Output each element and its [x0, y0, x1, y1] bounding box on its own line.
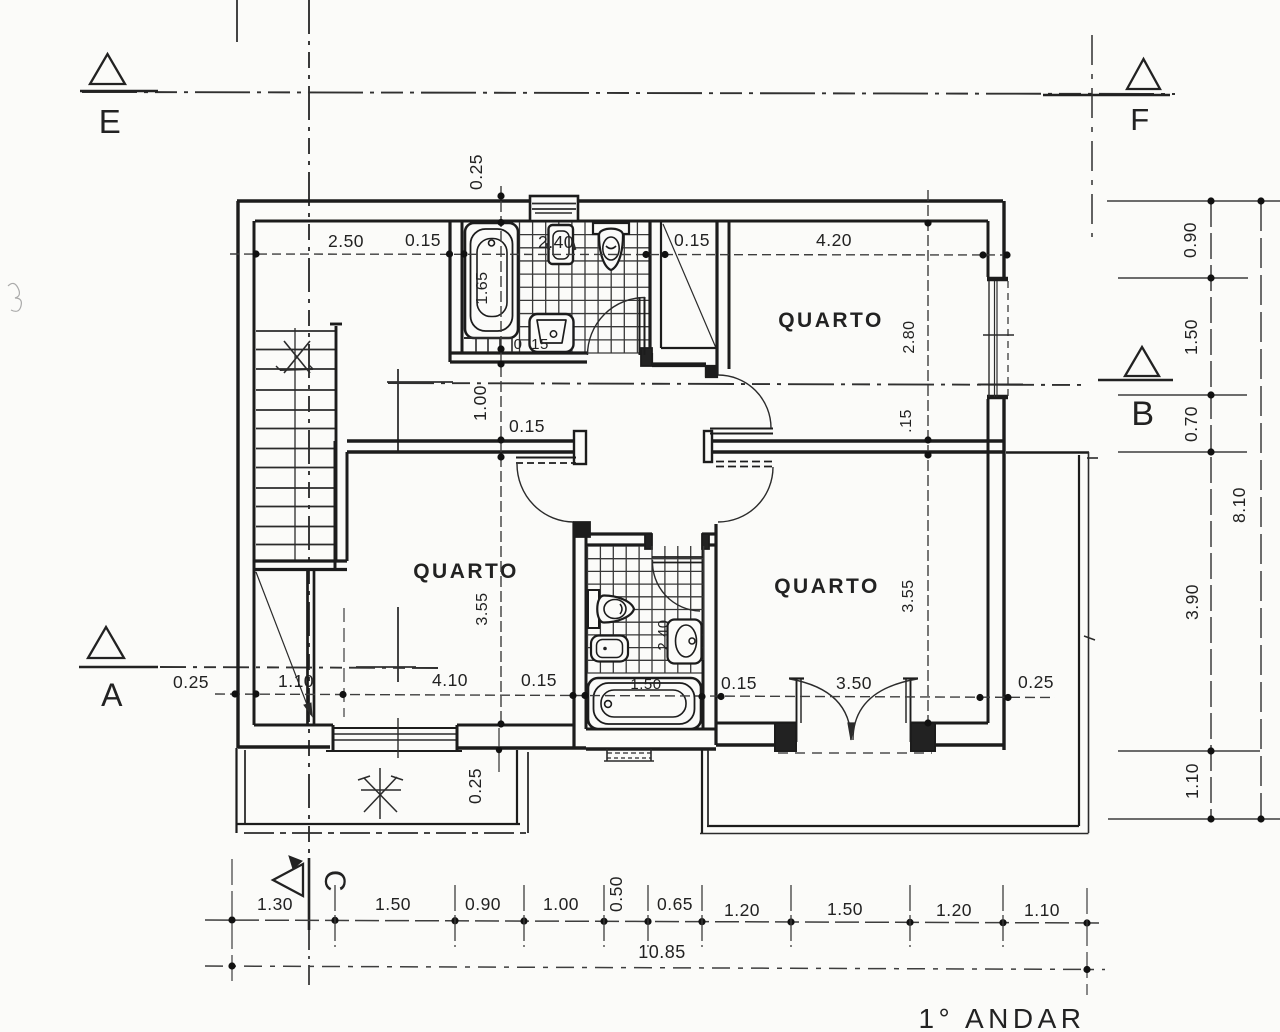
bottom bathroom top wall jambs	[645, 534, 709, 549]
window bottom-left bedroom sill lines	[326, 728, 462, 751]
dimension dots A chain	[231, 690, 1011, 701]
label 8.10 (rotated)	[1229, 487, 1249, 523]
label 2.80 (rotated)	[901, 320, 918, 353]
svg-text:2.40: 2.40	[538, 232, 574, 252]
bottom wall right bedroom inner face	[716, 722, 988, 725]
bottom wall bathroom inner face	[586, 728, 716, 731]
svg-text:0.25: 0.25	[465, 768, 485, 804]
section marker C small arrow	[289, 856, 302, 869]
label 0.15 A-mid	[521, 670, 557, 690]
label 0.25 A-left	[173, 672, 209, 692]
total dimension dots	[228, 962, 1090, 973]
right chain tick y=278	[1118, 277, 1248, 279]
label 0.25 terrace (rotated)	[465, 768, 485, 804]
svg-text:10.85: 10.85	[638, 942, 686, 962]
section marker F triangle	[1127, 59, 1160, 89]
label 1.10 bottom	[1024, 900, 1060, 920]
washbasin bottom of top bathroom	[530, 314, 574, 352]
section marker B triangle	[1125, 347, 1159, 376]
svg-text:3.55: 3.55	[474, 592, 491, 625]
door to top-right bedroom swing arc	[718, 375, 771, 428]
svg-text:F: F	[1130, 102, 1149, 137]
corridor wall right section bottom face	[712, 450, 1004, 453]
right total line x=1261	[1260, 201, 1262, 819]
label 0.15 A-right	[721, 673, 757, 693]
bottom bathroom top wall	[586, 534, 716, 545]
stair direction cross	[276, 341, 313, 373]
door to bottom-right bedroom swing arc	[718, 467, 773, 522]
svg-text:1.20: 1.20	[936, 900, 972, 920]
top bathroom door swing arc	[588, 298, 646, 356]
axis cross at A line x=398	[356, 607, 416, 682]
svg-text:B: B	[1131, 395, 1154, 433]
right chain tick y=201	[1107, 200, 1280, 202]
label 1.50 bottom2	[827, 899, 863, 919]
section marker F underline	[1043, 94, 1170, 97]
svg-text:1.50: 1.50	[827, 899, 863, 919]
corridor wall right section top face	[712, 439, 1004, 442]
label 0.15 shaft	[674, 230, 710, 250]
french door threshold dashes	[778, 752, 932, 754]
extension lines bottom chain	[232, 859, 1087, 995]
svg-text:1.20: 1.20	[724, 900, 760, 920]
svg-text:0.70: 0.70	[1181, 406, 1201, 442]
shaft diagonal	[663, 224, 716, 348]
door to top-right bedroom leaf	[710, 429, 773, 434]
right chain line x=1211	[1210, 201, 1212, 819]
label 0.15 corridor	[509, 416, 545, 436]
bottom wall left section outer face	[238, 747, 586, 748]
terrace left edge	[237, 748, 246, 833]
svg-text:4.10: 4.10	[432, 670, 468, 690]
top bathroom tile grid	[520, 222, 651, 353]
label 1.20 bottom1	[724, 900, 760, 920]
label 0.25 A-balcony	[1018, 672, 1054, 692]
svg-text:0.90: 0.90	[465, 894, 501, 914]
top-right bedroom left wall corner step	[652, 364, 717, 377]
label 1.50 right (rotated)	[1181, 319, 1201, 355]
right chain tick y=395	[1118, 394, 1247, 396]
bottom bathroom left wall	[574, 522, 590, 749]
toilet top bathroom bowl	[599, 229, 623, 270]
bathtub bottom bathroom	[588, 678, 701, 729]
svg-text:0.50: 0.50	[606, 876, 626, 912]
corridor wall left section top face	[347, 439, 574, 442]
bottom-left bedroom left wall	[335, 441, 347, 571]
label B	[1131, 395, 1154, 433]
svg-text:3.55: 3.55	[900, 579, 917, 612]
handwritten mark top left	[8, 283, 21, 311]
right total dots	[1257, 197, 1264, 822]
bathtub bottom drain	[605, 701, 612, 708]
void diagonal below stair	[256, 572, 311, 715]
door to bottom-right bedroom leaf	[716, 462, 773, 467]
window right wall jamb bottom	[987, 395, 1008, 400]
corridor wall left section end cap	[574, 431, 586, 464]
svg-text:3.50: 3.50	[836, 673, 872, 693]
toilet top bathroom tank	[593, 223, 629, 234]
label QUARTO top-right	[778, 309, 884, 332]
label 3.50	[836, 673, 872, 693]
label 1.50 bottom bathroom	[630, 676, 661, 693]
label 0.70 (rotated)	[1181, 406, 1201, 442]
label 3.55 bottom-right (rotated)	[900, 579, 917, 612]
stair walking line	[294, 328, 296, 560]
svg-text:0: 0	[514, 336, 523, 353]
label 4.20	[816, 230, 852, 250]
top-right bedroom left wall	[717, 221, 729, 375]
label 1.50 bottom1	[375, 894, 411, 914]
svg-text:E: E	[99, 103, 122, 140]
bottom bathroom tile grid	[587, 546, 704, 673]
section marker E triangle	[90, 54, 125, 84]
label QUARTO bottom-left	[413, 560, 519, 583]
svg-text:0.25: 0.25	[466, 154, 486, 190]
label 0.65	[657, 894, 693, 914]
svg-text:0.90: 0.90	[1180, 222, 1200, 258]
svg-text:QUARTO: QUARTO	[413, 560, 519, 583]
dimension line A chain	[215, 694, 1055, 698]
window right wall jamb top	[987, 277, 1008, 282]
terrace bottom edge	[236, 824, 530, 833]
axis cross at B line x=398	[387, 369, 453, 451]
column line C lower continuation	[308, 930, 310, 985]
label 1.20 bottom2	[936, 900, 972, 920]
chimney box on top wall	[530, 196, 578, 221]
svg-text:1.10: 1.10	[278, 671, 314, 691]
closet partition below stair	[308, 571, 315, 725]
top bathroom bottom wall	[450, 348, 652, 366]
bottom bathroom door threshold	[652, 557, 702, 563]
dimension dots bottom chain	[228, 916, 1090, 926]
label 3.90 (rotated)	[1182, 584, 1202, 620]
bottom wall right bedroom outer face	[716, 743, 1004, 746]
svg-text:8.10: 8.10	[1229, 487, 1249, 523]
shelf beside tub	[464, 338, 512, 352]
balcony bottom edge outer line	[700, 833, 1089, 835]
svg-text:1.00: 1.00	[543, 894, 579, 914]
corridor wall right section end cap	[704, 431, 712, 462]
exterior wall left inner face	[253, 221, 256, 725]
wall basin top bathroom	[547, 225, 575, 264]
exterior wall right outer face	[1002, 201, 1005, 750]
shaft bottom edge	[652, 348, 717, 377]
section marker B underline	[1098, 379, 1173, 382]
svg-text:2.40: 2.40	[655, 619, 672, 650]
balcony bottom edge inner line	[707, 825, 1079, 827]
bottom bathroom right wall lower	[702, 660, 705, 729]
label 0.15 top-left	[405, 230, 441, 250]
label F	[1130, 102, 1149, 137]
terrace drain star symbol	[358, 768, 403, 819]
section marker C line	[308, 858, 311, 930]
svg-text:2.80: 2.80	[901, 320, 918, 353]
terrace 0.25 dimension tick	[496, 728, 502, 772]
label 10.85	[638, 942, 686, 962]
construction line x=501	[500, 186, 502, 724]
stair treads	[256, 331, 335, 545]
bottom wall left section inner face	[254, 724, 574, 727]
svg-text:.15: .15	[898, 409, 915, 433]
right chain tick y=751	[1118, 750, 1260, 752]
label C (rotated)	[318, 870, 351, 892]
section marker A triangle	[88, 627, 124, 658]
dashed line x=1092 top right	[1091, 35, 1093, 237]
svg-text:QUARTO: QUARTO	[778, 309, 884, 332]
window right wall transom	[978, 335, 1023, 385]
exterior wall right inner face	[987, 221, 990, 723]
balcony top edge	[1006, 453, 1098, 459]
label 2.50	[328, 231, 364, 251]
balcony railing tick	[1084, 636, 1095, 640]
svg-text:1.00: 1.00	[470, 385, 490, 421]
bottom-right bedroom left wall	[703, 524, 716, 745]
section marker C triangle	[273, 864, 303, 896]
svg-text:1.65: 1.65	[474, 271, 491, 304]
label 1.30	[257, 894, 293, 914]
balcony left edge	[702, 750, 708, 833]
stair bottom landing wall	[255, 561, 347, 570]
stair right wall	[330, 324, 342, 560]
bottom bathroom door swing arc	[652, 560, 700, 611]
label QUARTO bottom-right	[774, 575, 880, 598]
svg-text:3.90: 3.90	[1182, 584, 1202, 620]
bathtub drain	[489, 240, 495, 246]
window bottom-left bedroom jambs	[333, 725, 457, 751]
french door right leaf line	[903, 679, 918, 743]
top bathroom door leaf	[640, 297, 645, 355]
dimension dots x=928	[924, 219, 931, 726]
label 0.90 (rotated)	[1180, 222, 1200, 258]
corridor wall left section bottom face	[347, 450, 574, 453]
balcony right edge inner line	[1078, 455, 1080, 826]
svg-text:A: A	[101, 677, 123, 713]
dimension dots top chain	[252, 250, 1010, 258]
svg-text:QUARTO: QUARTO	[774, 575, 880, 598]
total dimension line 10.85	[205, 966, 1105, 970]
label A	[101, 677, 123, 713]
exterior wall top inner face	[255, 220, 988, 223]
svg-text:1.10: 1.10	[1024, 900, 1060, 920]
svg-text:1.50: 1.50	[630, 676, 661, 693]
label 1.00 (rotated)	[470, 385, 490, 421]
svg-text:0.25: 0.25	[1018, 672, 1054, 692]
french door right swing arc	[853, 679, 917, 740]
svg-text:2.50: 2.50	[328, 231, 364, 251]
exterior wall top outer face	[237, 199, 1003, 202]
axis line B (horizontal dash-dot)	[388, 383, 1088, 385]
label 1.10 right (rotated)	[1182, 763, 1202, 799]
title 1° ANDAR	[918, 1003, 1085, 1032]
svg-text:0.15: 0.15	[509, 416, 545, 436]
column line stub x=237 top	[236, 0, 238, 42]
right chain tick y=819	[1108, 818, 1280, 820]
bottom wall bathroom outer face	[586, 747, 716, 750]
label 3.55 bottom-left (rotated)	[474, 592, 491, 625]
svg-text:0.65: 0.65	[657, 894, 693, 914]
french door left leaf line	[789, 679, 804, 743]
svg-text:1.50: 1.50	[375, 894, 411, 914]
label 2.40 top bathroom	[538, 232, 574, 252]
bidet bottom bathroom	[591, 636, 628, 662]
toilet bottom bathroom bowl	[597, 596, 634, 623]
door to bottom-left bedroom swing arc	[517, 464, 574, 522]
toilet bottom bathroom tank	[588, 590, 599, 628]
french door left swing arc	[790, 679, 851, 740]
svg-text:1.50: 1.50	[1181, 319, 1201, 355]
svg-text:4.20: 4.20	[816, 230, 852, 250]
top bathroom bottom wall right jamb	[641, 348, 652, 366]
label 1.00 bottom	[543, 894, 579, 914]
axis line E-F (horizontal dash-dot)	[82, 92, 1175, 94]
svg-text:0.15: 0.15	[674, 230, 710, 250]
label 1.65 (rotated, in tub)	[474, 271, 491, 304]
hatched step below bottom bathroom	[604, 749, 654, 761]
terrace right edge	[517, 750, 528, 833]
label 0.90 bottom	[465, 894, 501, 914]
svg-text:0.25: 0.25	[173, 672, 209, 692]
door to bottom-left bedroom leaf	[516, 458, 576, 464]
svg-text:0.15: 0.15	[521, 670, 557, 690]
bathtub top bathroom	[465, 223, 518, 338]
french door left jamb block	[775, 723, 796, 751]
dimension line bottom chain	[205, 920, 1105, 923]
label 0 15 with drain circle	[514, 331, 557, 353]
label .15 (rotated)	[898, 409, 915, 433]
dimension dots x=501	[497, 192, 504, 727]
label 2.40 bottom bathroom (rotated)	[655, 619, 672, 650]
svg-text:1.10: 1.10	[1182, 763, 1202, 799]
section marker E underline	[80, 90, 158, 93]
french door right jamb block	[911, 723, 935, 751]
label 1.10	[278, 671, 314, 691]
label 0.50 (rotated)	[606, 876, 626, 912]
column line C x=309 (vertical dash-dot full height)	[308, 0, 310, 858]
window bottom-left bedroom centre tick	[397, 718, 399, 758]
top bathroom left wall	[450, 221, 462, 362]
label 4.10	[432, 670, 468, 690]
top bathroom right wall	[650, 221, 661, 353]
french door centre wedge	[848, 723, 854, 740]
label 0.25 top (rotated)	[466, 154, 486, 190]
right chain dots	[1207, 197, 1214, 822]
window right wall glazing lines	[989, 281, 1008, 397]
svg-text:0.15: 0.15	[721, 673, 757, 693]
svg-text:1° ANDAR: 1° ANDAR	[918, 1003, 1085, 1032]
extension line x=344 dashed	[343, 608, 345, 717]
right chain tick y=452	[1118, 451, 1247, 453]
sink bottom bathroom	[668, 620, 702, 664]
balcony right edge outer line	[1088, 452, 1090, 833]
section marker A underline	[79, 666, 158, 669]
label E	[99, 103, 122, 140]
axis line A (horizontal dash-dot at left)	[160, 667, 438, 668]
svg-text:1.30: 1.30	[257, 894, 293, 914]
dimension line top chain	[230, 254, 1007, 255]
exterior wall left outer face	[236, 201, 239, 748]
void diagonal arrowhead	[304, 703, 312, 716]
svg-text:0.15: 0.15	[405, 230, 441, 250]
svg-text:15: 15	[531, 336, 549, 353]
construction line x=928	[927, 190, 929, 723]
